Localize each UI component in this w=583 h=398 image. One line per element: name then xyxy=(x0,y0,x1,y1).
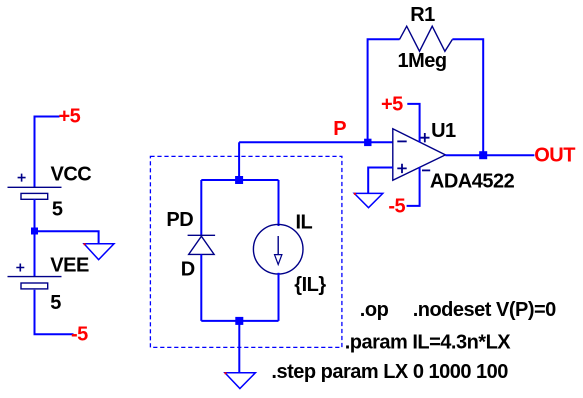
value 5 (VCC) xyxy=(52,198,63,220)
node label +5 (op-amp V+) xyxy=(381,93,403,115)
voltage source VEE (battery) xyxy=(8,264,62,289)
voltage source VCC (battery) xyxy=(8,174,62,200)
label IL xyxy=(296,212,313,234)
op-amp U1 xyxy=(393,129,446,180)
wire top node to current source xyxy=(278,180,280,226)
svg-text:PD: PD xyxy=(166,209,193,231)
label D xyxy=(181,258,195,280)
svg-text:P: P xyxy=(333,118,346,140)
svg-text:.param IL=4.3n*LX: .param IL=4.3n*LX xyxy=(345,331,512,353)
wire op-amp output to OUT xyxy=(445,154,534,156)
wire top node to diode xyxy=(200,180,202,235)
junction node (output/feedback) xyxy=(479,151,487,159)
node label -5 (op-amp V-) xyxy=(388,195,405,217)
svg-text:ADA4522: ADA4522 xyxy=(430,170,515,192)
svg-text:.op: .op xyxy=(360,299,389,321)
node label +5 xyxy=(59,106,81,128)
resistor R1 xyxy=(400,26,453,51)
wire junction to ground xyxy=(35,231,99,243)
svg-text:IL: IL xyxy=(296,212,313,234)
label U1 xyxy=(431,120,456,142)
wire +5 to VCC top xyxy=(35,117,60,188)
wire diode anode to bottom wire xyxy=(200,254,202,321)
wire bottom node to ground xyxy=(238,321,240,373)
svg-text:D: D xyxy=(181,258,195,280)
wire bottom inside box xyxy=(201,320,278,322)
label PD xyxy=(166,209,193,231)
spice directive .param xyxy=(345,331,512,353)
value 5 (VEE) xyxy=(50,292,61,314)
svg-text:{IL}: {IL} xyxy=(294,274,326,296)
wire feedback right vertical to output xyxy=(452,39,483,155)
wire non-inverting input to ground xyxy=(368,168,393,194)
current source IL xyxy=(253,224,303,274)
svg-text:.nodeset V(P)=0: .nodeset V(P)=0 xyxy=(413,299,556,321)
wire V- supply pin xyxy=(407,167,420,206)
dashed boundary box xyxy=(150,156,342,347)
wire VCC bottom to junction xyxy=(34,199,36,231)
wire V+ supply pin xyxy=(407,104,419,142)
svg-text:+5: +5 xyxy=(59,106,81,128)
wire current source bottom xyxy=(278,273,280,321)
junction node (feedback / inverting input) xyxy=(364,139,371,146)
svg-text:OUT: OUT xyxy=(534,145,575,167)
label R1 xyxy=(410,4,435,26)
value {IL} xyxy=(294,274,326,296)
svg-text:VCC: VCC xyxy=(51,163,92,185)
label VCC xyxy=(51,163,92,185)
label ADA4522 xyxy=(430,170,515,192)
ground (op-amp non-inverting input) xyxy=(354,193,383,208)
svg-text:R1: R1 xyxy=(410,4,435,26)
wire VEE bottom to -5 xyxy=(35,290,74,335)
svg-text:.step param LX 0 1000 100: .step param LX 0 1000 100 xyxy=(271,361,508,383)
wire top inside box xyxy=(201,179,278,181)
junction node (bottom inside box) xyxy=(235,317,243,325)
node label -5 xyxy=(71,323,88,345)
svg-text:+5: +5 xyxy=(381,93,403,115)
node label OUT xyxy=(534,145,575,167)
label VEE xyxy=(50,255,89,277)
svg-text:5: 5 xyxy=(50,292,61,314)
wire junction to VEE top xyxy=(34,231,36,277)
junction node (top inside box) xyxy=(235,176,243,184)
wire P down into box xyxy=(238,142,240,180)
spice directive .op .nodeset xyxy=(360,299,556,321)
ground (bottom center) xyxy=(225,372,256,388)
svg-text:5: 5 xyxy=(52,198,63,220)
value 1Meg xyxy=(398,50,447,72)
wire node P to op-amp inverting input xyxy=(239,141,393,143)
svg-text:1Meg: 1Meg xyxy=(398,50,447,72)
spice directive .step xyxy=(271,361,508,383)
junction node (VCC/VEE midpoint) xyxy=(31,228,38,235)
svg-text:VEE: VEE xyxy=(50,255,89,277)
svg-text:U1: U1 xyxy=(431,120,456,142)
node label P xyxy=(333,118,346,140)
svg-text:-5: -5 xyxy=(388,195,405,217)
wire feedback left vertical xyxy=(368,39,400,142)
ground (mid-left) xyxy=(84,243,114,259)
svg-text:-5: -5 xyxy=(71,323,88,345)
diode D (photodiode PD) xyxy=(188,235,216,254)
